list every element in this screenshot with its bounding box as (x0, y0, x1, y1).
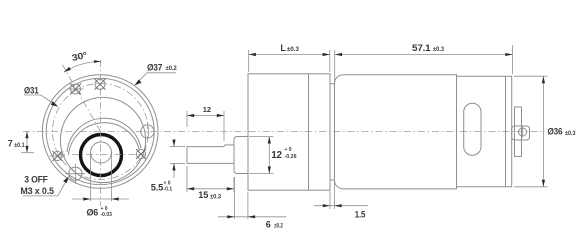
svg-text:6: 6 (266, 220, 271, 230)
svg-text:3 OFF: 3 OFF (24, 175, 48, 185)
svg-text:±0.3: ±0.3 (287, 47, 300, 53)
motor neck bottom (330, 179, 335, 181)
svg-text:5.5: 5.5 (151, 182, 163, 192)
boss top extension (249, 136, 274, 138)
M3 hole 209deg (50, 151, 65, 161)
motor neck top (330, 83, 335, 85)
3 OFF M3 label (20, 175, 68, 196)
M3 hole 120deg (68, 84, 84, 95)
crescent inner arc (69, 123, 140, 155)
7 +-0.1 dimension (8, 132, 34, 153)
30 deg radial centerline (63, 65, 101, 132)
plain hole right (141, 122, 154, 141)
bearing boss side (234, 137, 249, 174)
5.5 dim (151, 139, 185, 193)
flange outer circle Ø37 (42, 75, 158, 189)
terminal tick (522, 127, 524, 138)
svg-text:15: 15 (198, 190, 208, 200)
terminal mid stub (512, 126, 530, 140)
motor body (335, 75, 512, 189)
D6 dimension (72, 197, 129, 218)
12 shaft flat dim (187, 105, 224, 141)
57.1 dim (335, 43, 513, 84)
shaft circle Ø6 (91, 142, 112, 163)
vertical centerline (100, 60, 102, 206)
bearing boss thick circle (81, 135, 122, 176)
label D37 (134, 62, 177, 85)
gearbox inner bore circle (60, 97, 145, 182)
crescent outer arc (67, 118, 141, 152)
vent capsule (464, 103, 481, 155)
svg-text:-0.26: -0.26 (285, 154, 297, 160)
M3 hole 330deg (136, 149, 146, 159)
svg-text:1.5: 1.5 (355, 210, 366, 220)
M3 hole top (95, 79, 106, 90)
svg-text:L: L (280, 43, 286, 53)
shaft extension line right (111, 153, 113, 202)
flange rim inner circle (46, 78, 154, 184)
output shaft side (187, 145, 234, 164)
svg-text:±0.1: ±0.1 (14, 143, 25, 149)
svg-text:Ø36: Ø36 (548, 127, 563, 137)
svg-text:12: 12 (271, 150, 282, 161)
svg-text:±0.3: ±0.3 (565, 131, 576, 137)
svg-text:-0.1: -0.1 (164, 187, 173, 193)
12 boss dim (268, 137, 297, 174)
svg-text:±0.2: ±0.2 (166, 66, 178, 72)
1.5 dim (314, 181, 368, 220)
boss bottom extension (249, 173, 274, 175)
30 deg dimension arc (64, 50, 101, 72)
motor endcap seam (456, 75, 458, 189)
label D31 (24, 86, 58, 107)
D36 dim (514, 76, 576, 187)
svg-text:Ø37: Ø37 (147, 62, 162, 72)
bolt circle Ø31 (dash-dot) (53, 84, 149, 180)
svg-text:±0.3: ±0.3 (210, 194, 222, 200)
shaft horizontal centerline (58, 154, 145, 156)
15 dim (187, 166, 234, 200)
terminal hole (519, 128, 527, 136)
svg-text:12: 12 (203, 105, 211, 114)
svg-text:±0.2: ±0.2 (274, 224, 284, 230)
plain hole lower-left (65, 164, 85, 184)
6 dim (218, 177, 286, 230)
shaft extension line left (90, 153, 92, 202)
svg-text:M3 x 0.5: M3 x 0.5 (20, 186, 54, 196)
svg-text:-0.03: -0.03 (101, 212, 113, 218)
terminal plate (515, 107, 522, 157)
motor rim line (505, 76, 507, 187)
svg-text:57.1: 57.1 (412, 43, 431, 53)
horizontal centerline (both views) (23, 131, 545, 133)
svg-text:Ø6: Ø6 (87, 208, 99, 218)
gearbox seam (308, 74, 310, 190)
svg-text:+ 0: + 0 (285, 147, 292, 153)
gearbox body (248, 74, 330, 190)
svg-text:7: 7 (8, 139, 13, 149)
svg-text:Ø31: Ø31 (24, 86, 39, 96)
L dim (249, 43, 330, 72)
svg-text:±0.3: ±0.3 (433, 47, 445, 53)
